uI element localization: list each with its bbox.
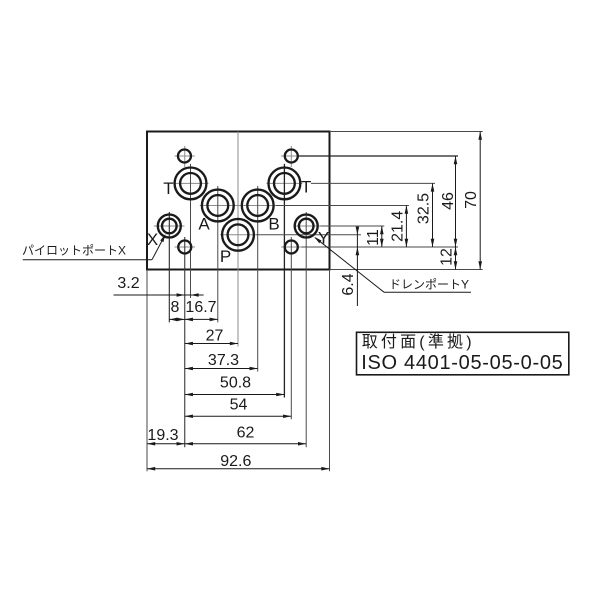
svg-text:8: 8 bbox=[171, 299, 180, 316]
dimension 21.4 bbox=[389, 206, 408, 248]
dimension 3.2 bbox=[114, 275, 204, 297]
leader drain port Y bbox=[315, 238, 471, 292]
extension column T-left bbox=[190, 164, 192, 298]
label T right bbox=[301, 178, 311, 197]
port P bbox=[222, 219, 254, 251]
dimension 54 bbox=[185, 396, 292, 418]
label T left bbox=[163, 179, 173, 198]
extension column X bbox=[168, 212, 170, 322]
extension column bolt-left bbox=[184, 237, 186, 447]
svg-text:54: 54 bbox=[230, 396, 248, 413]
extension bolt-top row right bbox=[297, 155, 458, 157]
extension bottom edge right bbox=[330, 269, 483, 271]
valve mounting face outline bbox=[147, 132, 330, 270]
svg-text:T: T bbox=[163, 179, 173, 198]
cross bolt hole bottom-right bbox=[281, 246, 301, 248]
cross port Y horizontal bbox=[294, 225, 321, 227]
svg-text:ドレンポートY: ドレンポートY bbox=[389, 278, 469, 292]
cross ports A and B bbox=[200, 205, 276, 207]
label pilot port X bbox=[22, 244, 126, 258]
dimension 12 bbox=[439, 247, 458, 270]
svg-text:16.7: 16.7 bbox=[185, 299, 216, 316]
leader pilot port X bbox=[23, 234, 166, 260]
dimension 70 bbox=[463, 132, 482, 270]
svg-text:B: B bbox=[268, 215, 279, 234]
svg-text:ISO 4401-05-05-0-05: ISO 4401-05-05-0-05 bbox=[361, 352, 563, 374]
dimension 37.3 bbox=[185, 352, 258, 370]
cross bolt hole bottom-left bbox=[175, 246, 195, 248]
svg-text:70: 70 bbox=[463, 191, 480, 209]
ISO spec box bbox=[357, 332, 569, 375]
dimension 16.7 bbox=[185, 299, 218, 321]
svg-text:A: A bbox=[198, 215, 210, 234]
extension bolt-bottom row right bbox=[302, 246, 459, 248]
cross port X bbox=[154, 225, 185, 227]
dimension 46 bbox=[440, 156, 457, 247]
svg-text:62: 62 bbox=[237, 424, 255, 441]
dimension 62 bbox=[185, 424, 306, 445]
svg-text:37.3: 37.3 bbox=[208, 352, 239, 369]
extension column B bbox=[257, 186, 259, 372]
label Y bbox=[318, 228, 329, 247]
label B bbox=[268, 215, 279, 234]
dimension 19.3 bbox=[147, 427, 185, 446]
leader drain port Y arrowhead bbox=[314, 237, 322, 244]
cross bolt hole top-left bbox=[175, 146, 195, 167]
dimension 92.6 bbox=[147, 453, 330, 471]
cross port T right bbox=[266, 182, 302, 184]
extension top edge right bbox=[330, 131, 483, 133]
cross bolt hole top-right bbox=[281, 146, 301, 167]
svg-text:X: X bbox=[147, 230, 158, 249]
extension XY row right bbox=[320, 225, 384, 227]
svg-text:T: T bbox=[301, 178, 311, 197]
svg-text:3.2: 3.2 bbox=[117, 275, 139, 292]
dimension 50.8 bbox=[185, 375, 285, 397]
bolt hole bottom-right bbox=[285, 241, 298, 254]
port A bbox=[202, 190, 234, 222]
port T left bbox=[175, 168, 207, 200]
cross port T left bbox=[174, 182, 209, 184]
svg-text:取付面(準拠): 取付面(準拠) bbox=[362, 333, 475, 351]
label mounting face bbox=[362, 333, 475, 351]
svg-text:46: 46 bbox=[440, 192, 457, 210]
extension left edge down bbox=[146, 270, 148, 472]
svg-text:6.4: 6.4 bbox=[340, 273, 357, 295]
bolt hole top-right bbox=[285, 150, 298, 163]
svg-text:P: P bbox=[220, 247, 231, 266]
extension P row right bbox=[256, 234, 361, 236]
port B bbox=[242, 190, 274, 222]
svg-text:32.5: 32.5 bbox=[416, 193, 433, 224]
label drain port Y bbox=[389, 278, 469, 292]
svg-text:27: 27 bbox=[206, 328, 224, 345]
svg-text:11: 11 bbox=[365, 229, 382, 246]
dimension 27 bbox=[185, 328, 238, 346]
centerline vertical through P bbox=[237, 132, 239, 347]
port Y drain bbox=[295, 215, 318, 238]
extension T row right bbox=[311, 182, 435, 184]
label P bbox=[220, 247, 231, 266]
extension column bolt-right bbox=[290, 237, 292, 419]
svg-text:92.6: 92.6 bbox=[220, 453, 251, 470]
cross port P horizontal bbox=[220, 234, 256, 236]
port T right bbox=[269, 168, 301, 200]
extension column Y bbox=[305, 212, 307, 447]
svg-text:パイロットポートX: パイロットポートX bbox=[22, 244, 126, 258]
label ISO 4401-05-05-0-05 bbox=[361, 352, 563, 374]
dimension 11 bbox=[365, 226, 384, 247]
extension column T-right bbox=[283, 164, 285, 398]
svg-text:19.3: 19.3 bbox=[147, 427, 178, 444]
label A bbox=[198, 215, 210, 234]
bolt hole bottom-left bbox=[178, 241, 191, 254]
extension AB row right bbox=[276, 205, 409, 207]
port X pilot bbox=[158, 215, 181, 238]
label X bbox=[147, 230, 158, 249]
svg-text:50.8: 50.8 bbox=[220, 375, 251, 392]
dimension 32.5 bbox=[416, 183, 435, 247]
svg-text:21.4: 21.4 bbox=[389, 211, 406, 242]
bolt hole top-left bbox=[178, 150, 191, 163]
extension right edge down bbox=[329, 270, 331, 472]
svg-text:12: 12 bbox=[439, 248, 456, 266]
dimension 8 bbox=[169, 299, 184, 321]
extension column A bbox=[217, 186, 219, 322]
dimension 6.4 bbox=[340, 227, 359, 306]
